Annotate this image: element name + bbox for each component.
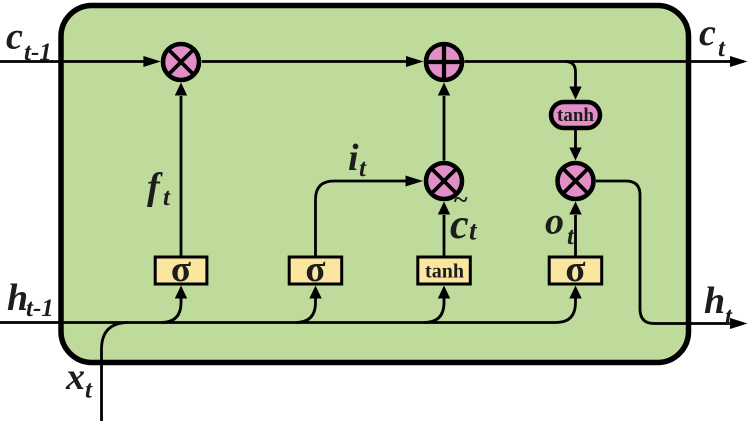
wire: multiply gate 3 up to add gate [443, 96, 446, 161]
label f_t [147, 166, 171, 211]
wire: gate curve into sigma box 1 [161, 299, 181, 323]
wire: cell state line right segment [465, 60, 732, 63]
svg-text:t: t [163, 184, 171, 211]
svg-text:t-1: t-1 [24, 39, 52, 66]
svg-text:t-1: t-1 [26, 295, 54, 322]
wire: tanh box 3 up to multiply gate 3 [443, 215, 446, 256]
arrow into add gate [406, 56, 424, 67]
label h_{t-1} [7, 277, 54, 322]
label x_t input [65, 356, 93, 404]
wire: sigma box 2 up and right to multiply gate 3 (i_t path) [316, 181, 408, 256]
multiply gate 3 (input) [426, 163, 462, 199]
svg-text:o: o [545, 201, 564, 243]
wire: multiply gate 4 output to h_t exit [596, 181, 731, 324]
cell body rounded rectangle [61, 6, 689, 363]
label c_t output [699, 12, 726, 62]
add gate [426, 44, 462, 80]
sigma box 2 [289, 249, 342, 290]
wire: tanh pill to multiply gate 4 [574, 130, 577, 148]
svg-text:tanh: tanh [557, 105, 594, 126]
wire: gate curve into tanh box 3 [424, 299, 444, 323]
sigma box 4 [549, 249, 602, 290]
svg-text:i: i [348, 137, 359, 179]
arrow: c_t output [730, 56, 748, 67]
arrow into tanh pill top [569, 87, 581, 100]
sigma box 1 [155, 249, 207, 290]
arrow into sigma box 2 bottom [309, 286, 321, 299]
multiply gate 1 (forget) [163, 44, 199, 80]
svg-text:t: t [567, 223, 575, 250]
arrow: h_t output [730, 318, 748, 329]
svg-text:h: h [704, 280, 725, 322]
label h_t output [704, 280, 733, 330]
arrow into multiply gate 4 top [569, 148, 581, 161]
svg-text:c: c [699, 12, 716, 54]
arrow into multiply gate 3 left [406, 176, 424, 187]
svg-text:σ: σ [171, 249, 191, 290]
arrow into add gate bottom [438, 83, 450, 96]
wire: sigma box 4 up to multiply gate 4 [574, 215, 577, 256]
label i_t [348, 137, 367, 182]
svg-text:t: t [359, 155, 367, 182]
label c~_t (candidate cell state) [450, 185, 478, 248]
tanh box 3 [418, 257, 471, 284]
wire: x_t input line joining hidden line [102, 323, 129, 421]
arrow into sigma box 4 bottom [569, 286, 581, 299]
arrow into multiply gate 4 bottom [569, 202, 581, 215]
svg-text:t: t [718, 35, 726, 62]
svg-text:h: h [7, 277, 28, 319]
label o_t [545, 201, 575, 251]
svg-text:c: c [450, 202, 469, 248]
svg-text:x: x [65, 356, 85, 398]
wire: cell state line left segment [0, 60, 146, 63]
svg-text:σ: σ [565, 249, 585, 290]
wire: cell state line middle segment [202, 60, 407, 63]
wire: branch from cell line down to tanh pill [565, 62, 576, 89]
wire: gate curve into sigma box 4 [556, 299, 576, 323]
svg-text:σ: σ [305, 249, 325, 290]
svg-text:t: t [725, 303, 733, 330]
wire: gate curve into sigma box 2 [296, 299, 316, 323]
arrow into tanh box 3 bottom [438, 286, 450, 299]
wire: hidden state h_{t-1} line [0, 321, 556, 324]
arrow into sigma box 1 bottom [175, 286, 187, 299]
svg-text:c: c [6, 16, 23, 58]
svg-text:t: t [85, 377, 93, 404]
arrow into multiply gate 1 [143, 56, 161, 67]
multiply gate 4 (output) [558, 163, 594, 199]
arrow into multiply gate 3 bottom [438, 202, 450, 215]
wire: sigma box 1 up to multiply gate 1 [180, 96, 183, 256]
label c_{t-1} [6, 16, 52, 67]
tanh pill [551, 102, 600, 128]
svg-text:tanh: tanh [425, 261, 464, 283]
arrow into multiply gate 1 bottom [175, 83, 187, 96]
